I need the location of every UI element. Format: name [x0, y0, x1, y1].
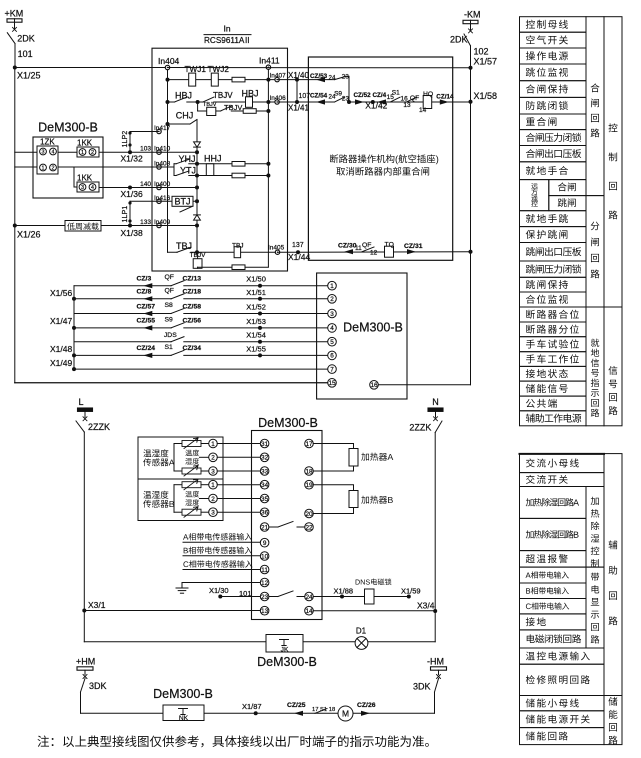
- svg-text:24: 24: [329, 75, 336, 82]
- svg-text:In407: In407: [270, 73, 287, 80]
- svg-text:2ZZK: 2ZZK: [409, 423, 431, 433]
- svg-text:TBJV: TBJV: [213, 91, 233, 100]
- svg-text:1LP2: 1LP2: [120, 131, 129, 148]
- svg-text:X1/59: X1/59: [401, 587, 421, 596]
- svg-text:2: 2: [211, 455, 215, 462]
- svg-text:DeM300-B: DeM300-B: [343, 321, 403, 335]
- svg-text:TWJ2: TWJ2: [208, 65, 230, 74]
- svg-text:31: 31: [261, 441, 269, 448]
- svg-text:In411: In411: [259, 56, 280, 66]
- svg-text:CZ/52: CZ/52: [354, 92, 372, 99]
- svg-text:2ZZK: 2ZZK: [88, 422, 110, 432]
- svg-text:X1/25: X1/25: [17, 71, 41, 81]
- svg-text:133: 133: [140, 219, 151, 226]
- svg-text:16: 16: [370, 382, 378, 389]
- svg-text:3: 3: [211, 468, 215, 475]
- svg-text:2: 2: [211, 496, 215, 503]
- svg-text:2DK: 2DK: [450, 35, 468, 45]
- svg-text:QF: QF: [165, 287, 174, 294]
- svg-text:L: L: [78, 397, 83, 407]
- svg-text:101: 101: [18, 49, 33, 59]
- svg-text:CZ/57: CZ/57: [137, 303, 156, 310]
- svg-text:In408: In408: [154, 161, 171, 168]
- svg-text:10: 10: [261, 553, 269, 560]
- svg-text:S1: S1: [392, 89, 400, 96]
- svg-text:X1/52: X1/52: [246, 303, 266, 312]
- svg-text:2DK: 2DK: [17, 34, 35, 44]
- svg-text:CZ/56: CZ/56: [183, 318, 202, 325]
- svg-text:X1/32: X1/32: [121, 154, 143, 164]
- svg-text:15: 15: [328, 380, 336, 387]
- svg-text:M: M: [342, 709, 349, 719]
- svg-text:X1/40: X1/40: [288, 71, 309, 80]
- svg-text:3: 3: [330, 311, 334, 318]
- svg-text:CZ/58: CZ/58: [183, 303, 202, 310]
- svg-text:+KM: +KM: [5, 9, 24, 19]
- svg-text:RCS9611A: RCS9611A: [204, 36, 245, 45]
- svg-text:23: 23: [261, 594, 269, 601]
- svg-text:QF: QF: [165, 274, 174, 281]
- svg-text:In: In: [223, 24, 230, 34]
- svg-text:X1/38: X1/38: [121, 228, 143, 238]
- svg-text:YHJ: YHJ: [179, 154, 196, 164]
- svg-text:CZ/14: CZ/14: [436, 94, 454, 101]
- svg-text:X1/53: X1/53: [246, 317, 266, 326]
- svg-text:11: 11: [261, 567, 268, 574]
- svg-text:24: 24: [305, 594, 313, 601]
- svg-text:In416: In416: [154, 195, 171, 202]
- svg-text:12: 12: [370, 250, 378, 257]
- svg-text:3: 3: [211, 510, 215, 517]
- svg-text:+HM: +HM: [76, 657, 95, 667]
- svg-text:20: 20: [305, 511, 313, 518]
- svg-text:S1: S1: [165, 344, 174, 351]
- svg-text:18: 18: [305, 468, 313, 475]
- svg-text:21: 21: [261, 524, 269, 531]
- svg-text:19: 19: [305, 482, 313, 489]
- svg-text:1LP1: 1LP1: [120, 206, 129, 223]
- svg-text:107: 107: [299, 93, 311, 100]
- svg-text:In406: In406: [270, 95, 287, 102]
- svg-text:X1/57: X1/57: [474, 57, 498, 67]
- svg-text:X3/1: X3/1: [88, 600, 106, 610]
- svg-text:In400: In400: [154, 181, 171, 188]
- svg-text:CZ/4: CZ/4: [373, 92, 387, 99]
- svg-text:NK: NK: [179, 715, 189, 722]
- svg-text:In417: In417: [154, 125, 171, 132]
- svg-text:D1: D1: [356, 627, 367, 636]
- svg-text:DeM300-B: DeM300-B: [257, 655, 317, 669]
- svg-text:CZ/31: CZ/31: [404, 243, 423, 250]
- svg-text:X1/56: X1/56: [50, 288, 72, 298]
- svg-text:DeM300-B: DeM300-B: [258, 416, 318, 430]
- svg-text:JK: JK: [281, 647, 289, 654]
- svg-text:HBJ: HBJ: [242, 88, 259, 98]
- svg-text:3: 3: [42, 149, 45, 155]
- svg-text:1ZK: 1ZK: [40, 138, 55, 147]
- svg-text:TBJV: TBJV: [224, 103, 242, 112]
- svg-text:140: 140: [140, 181, 151, 188]
- svg-text:1KK: 1KK: [77, 139, 93, 148]
- svg-text:22: 22: [305, 524, 313, 531]
- svg-text:32: 32: [261, 455, 269, 462]
- svg-text:II: II: [245, 36, 250, 45]
- svg-text:1: 1: [211, 441, 215, 448]
- svg-text:QF: QF: [362, 242, 371, 249]
- svg-text:X1/42: X1/42: [365, 101, 387, 111]
- svg-text:33: 33: [261, 468, 269, 475]
- svg-text:HHJ: HHJ: [204, 153, 222, 163]
- svg-text:3DK: 3DK: [413, 682, 431, 692]
- svg-text:X1/54: X1/54: [246, 331, 266, 340]
- svg-text:S9: S9: [165, 316, 174, 323]
- svg-text:6: 6: [330, 353, 334, 360]
- svg-text:2: 2: [91, 150, 94, 156]
- svg-text:X1/88: X1/88: [334, 587, 354, 596]
- svg-text:TBJV: TBJV: [190, 252, 207, 259]
- svg-text:1KK: 1KK: [77, 174, 93, 183]
- svg-text:S8: S8: [165, 302, 174, 309]
- svg-text:X1/36: X1/36: [121, 189, 143, 199]
- svg-text:HBJ: HBJ: [175, 91, 192, 101]
- svg-text:14: 14: [419, 107, 427, 114]
- svg-text:CZ/25: CZ/25: [287, 702, 306, 709]
- svg-text:36: 36: [261, 510, 269, 517]
- svg-text:DeM300-B: DeM300-B: [38, 121, 98, 135]
- svg-text:14: 14: [305, 608, 313, 615]
- svg-text:CZ/54: CZ/54: [310, 93, 328, 100]
- svg-text:X3/4: X3/4: [417, 601, 435, 611]
- svg-text:CZ/24: CZ/24: [137, 345, 156, 352]
- svg-text:X1/47: X1/47: [50, 316, 72, 326]
- svg-text:YTJ: YTJ: [180, 166, 196, 176]
- svg-text:1: 1: [42, 165, 45, 171]
- svg-text:QF: QF: [410, 95, 419, 102]
- svg-text:CZ/18: CZ/18: [183, 289, 202, 296]
- svg-text:2: 2: [330, 296, 334, 303]
- svg-text:TBJ: TBJ: [176, 241, 192, 251]
- svg-text:34: 34: [261, 482, 269, 489]
- svg-text:In410: In410: [154, 146, 171, 153]
- svg-text:TWJ1: TWJ1: [185, 65, 207, 74]
- svg-text:102: 102: [474, 47, 489, 57]
- svg-text:JDS: JDS: [164, 332, 177, 339]
- svg-text:4: 4: [52, 149, 55, 155]
- svg-text:X1/51: X1/51: [246, 288, 266, 297]
- svg-text:9: 9: [263, 540, 267, 547]
- svg-text:CZ/55: CZ/55: [137, 318, 156, 325]
- svg-text:CZ/26: CZ/26: [357, 702, 376, 709]
- svg-text:CZ/13: CZ/13: [183, 276, 202, 283]
- svg-text:137: 137: [292, 242, 304, 249]
- svg-text:13: 13: [403, 102, 411, 109]
- svg-text:HQ: HQ: [423, 91, 433, 98]
- svg-text:CZ/34: CZ/34: [183, 345, 202, 352]
- svg-text:1: 1: [211, 482, 215, 489]
- svg-text:X1/49: X1/49: [50, 358, 72, 368]
- svg-text:N: N: [432, 397, 439, 407]
- svg-text:12: 12: [261, 580, 269, 587]
- svg-text:TBJ: TBJ: [232, 243, 244, 250]
- svg-text:35: 35: [261, 496, 269, 503]
- svg-text:23: 23: [342, 95, 350, 102]
- svg-text:-HM: -HM: [427, 657, 444, 667]
- svg-text:TBJV: TBJV: [203, 102, 217, 108]
- svg-text:CZ/3: CZ/3: [137, 276, 152, 283]
- svg-text:In405: In405: [268, 245, 285, 252]
- svg-text:4: 4: [330, 325, 334, 332]
- svg-text:X1/30: X1/30: [209, 586, 229, 595]
- svg-text:BTJ: BTJ: [174, 197, 190, 207]
- svg-text:3DK: 3DK: [89, 681, 107, 691]
- svg-text:5: 5: [330, 339, 334, 346]
- svg-text:X1/41: X1/41: [288, 104, 309, 113]
- svg-text:X1/48: X1/48: [50, 344, 72, 354]
- svg-text:13: 13: [261, 608, 269, 615]
- svg-text:17: 17: [305, 441, 313, 448]
- svg-text:X1/87: X1/87: [242, 702, 262, 711]
- svg-text:101: 101: [239, 589, 252, 598]
- svg-text:-KM: -KM: [464, 10, 481, 20]
- svg-text:23: 23: [342, 73, 350, 80]
- svg-text:CZ/30: CZ/30: [338, 243, 357, 250]
- svg-text:X1/26: X1/26: [17, 230, 41, 240]
- svg-text:4: 4: [91, 185, 94, 191]
- svg-text:CZ/53: CZ/53: [310, 73, 328, 80]
- svg-text:DeM300-B: DeM300-B: [153, 687, 213, 701]
- svg-text:X1/55: X1/55: [246, 344, 266, 353]
- svg-text:3: 3: [81, 185, 84, 191]
- svg-text:CZ/8: CZ/8: [137, 289, 152, 296]
- svg-text:17 S1 18: 17 S1 18: [312, 707, 335, 713]
- svg-text:X1/44: X1/44: [288, 252, 310, 262]
- svg-text:7: 7: [330, 366, 334, 373]
- svg-text:In409: In409: [154, 219, 171, 226]
- svg-text:2: 2: [52, 165, 55, 171]
- svg-text:CHJ: CHJ: [176, 110, 194, 120]
- svg-text:1: 1: [81, 150, 84, 156]
- svg-text:1: 1: [330, 283, 334, 290]
- svg-text:103: 103: [140, 146, 151, 153]
- svg-text:X1/50: X1/50: [246, 275, 266, 284]
- svg-text:X1/58: X1/58: [474, 91, 498, 101]
- svg-text:TQ: TQ: [385, 242, 394, 249]
- svg-text:In404: In404: [158, 56, 180, 66]
